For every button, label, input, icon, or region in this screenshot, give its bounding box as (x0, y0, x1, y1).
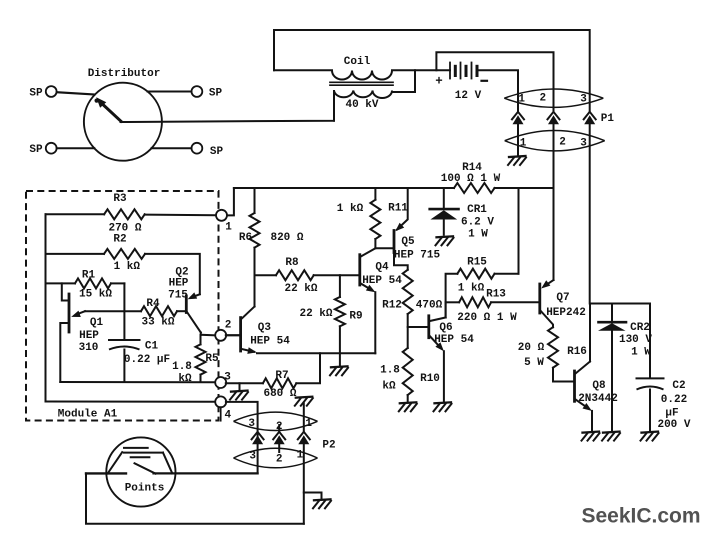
svg-text:Q4: Q4 (375, 262, 389, 274)
svg-text:Q8: Q8 (592, 380, 606, 392)
svg-text:Q3: Q3 (258, 322, 272, 334)
ground stub node 3 wire (239, 383, 241, 390)
wire P1 pin 2 column (553, 124, 555, 188)
points right slant (163, 453, 172, 474)
wire C1 bottom lead (123, 350, 125, 383)
svg-text:1 kΩ: 1 kΩ (337, 203, 364, 215)
wire P1 pin 1 to ground (517, 124, 519, 155)
wire R15 riser to Q6 collector (445, 302, 447, 317)
wire R8 left (255, 274, 277, 276)
svg-text:1 kΩ: 1 kΩ (114, 261, 141, 273)
svg-text:R2: R2 (113, 234, 126, 246)
ground at bottom right stub (313, 499, 331, 508)
wire Q7 emitter slant (545, 280, 554, 286)
wire CR2 top lead (611, 304, 613, 323)
wire Q8 emitter slant (576, 400, 589, 409)
wire SP top-left to rotor (57, 92, 95, 94)
svg-text:22 kΩ: 22 kΩ (299, 308, 332, 320)
transistor Q7 arrow (541, 280, 550, 288)
coil T1 secondary winding 40 kV (334, 91, 392, 112)
wire R15 right (495, 273, 519, 275)
terminal SP top-right (192, 86, 223, 99)
svg-text:R7: R7 (275, 370, 288, 382)
node 4 lower stub (220, 407, 222, 421)
svg-text:680 Ω: 680 Ω (263, 388, 296, 400)
wire R4 right to Q2 base (177, 310, 186, 312)
coil T1 primary winding (332, 56, 392, 80)
wire Q6 emitter lead (443, 351, 445, 401)
svg-text:R8: R8 (285, 257, 299, 269)
svg-text:3: 3 (580, 138, 587, 150)
wire R16 to Q8 base (553, 368, 573, 382)
svg-text:HEP: HEP (79, 330, 99, 342)
svg-text:µF: µF (665, 408, 678, 420)
points left slant (108, 452, 123, 473)
svg-text:33 kΩ: 33 kΩ (141, 317, 174, 329)
wire emitter rail Q3-Q4 (257, 352, 375, 354)
svg-text:130 V: 130 V (619, 334, 652, 346)
svg-text:1: 1 (520, 138, 527, 150)
resistor R6 (239, 213, 304, 248)
coil T1 core (330, 82, 393, 85)
svg-text:C2: C2 (672, 380, 685, 392)
wire R6 bottom lead (254, 248, 256, 307)
wire R7 right riser (296, 353, 320, 383)
distributor (84, 68, 162, 161)
wire C2 top lead (649, 304, 651, 379)
battery 12 V (435, 63, 487, 103)
wire Q5 collector to R12 (394, 253, 408, 270)
svg-text:2: 2 (276, 454, 283, 466)
svg-text:3: 3 (224, 372, 231, 384)
transistor Q1 (69, 294, 103, 354)
node 3 (215, 372, 231, 389)
svg-text:R16: R16 (567, 346, 587, 358)
ground below C2 (641, 432, 659, 441)
points circle (106, 437, 175, 506)
svg-text:HEP 715: HEP 715 (394, 250, 441, 262)
module A1 dashed box (26, 191, 219, 421)
svg-text:100 Ω 1 W: 100 Ω 1 W (441, 173, 501, 185)
svg-text:12 V: 12 V (455, 90, 482, 102)
wire R5 bottom lead (200, 375, 202, 382)
svg-text:Points: Points (125, 483, 165, 495)
wire Q5 base junction (375, 247, 393, 249)
transistor Q8 arrow (583, 403, 592, 411)
connector P1 pin 2 arrow (548, 112, 560, 125)
resistor R3 (104, 193, 145, 235)
wire Q2 emitter slant (191, 294, 200, 297)
svg-text:R12: R12 (382, 300, 402, 312)
svg-text:1 W: 1 W (468, 229, 488, 241)
ground below Q6 (434, 402, 452, 411)
wire R8 right to Q4 base (314, 274, 359, 276)
svg-text:1: 1 (225, 222, 232, 234)
svg-text:3: 3 (248, 418, 255, 430)
wire Q4 emitter lead (374, 292, 376, 353)
node 1 (216, 210, 232, 234)
connector P2 upper pin labels (248, 418, 312, 433)
wire R1 left (46, 282, 76, 284)
wire Q5 emitter from supply (397, 188, 408, 230)
terminal SP top-left (29, 86, 56, 99)
svg-text:4: 4 (224, 410, 231, 422)
wire R14 line to CR1 (443, 188, 445, 209)
wire node 3 to R7 (226, 382, 263, 384)
svg-text:R3: R3 (113, 193, 127, 205)
wire module bottom rail to node 3 (60, 381, 216, 383)
ground below P1 pin 1 (508, 156, 526, 165)
svg-text:1: 1 (297, 450, 304, 462)
connector P1 lower ellipse (505, 131, 605, 151)
wire R15 left riser (446, 274, 458, 318)
connector P1 pin 1 arrow (512, 112, 524, 125)
transistor Q2 (168, 266, 189, 312)
resistor R12 (382, 270, 443, 314)
svg-text:6.2 V: 6.2 V (461, 217, 494, 229)
wire R13 left (446, 301, 460, 303)
ground below CR1 (436, 236, 454, 245)
wire Q1 base slant (77, 311, 85, 314)
svg-text:220 Ω 1 W: 220 Ω 1 W (457, 312, 517, 324)
wire R12 to R10 (407, 314, 409, 348)
svg-text:HEP 54: HEP 54 (250, 336, 290, 348)
node 1 riser (226, 188, 234, 215)
svg-text:1 W: 1 W (631, 347, 651, 359)
wire P1 pin2 column to Q7 emitter (553, 188, 555, 280)
wire distributor rotor to coil secondary (121, 91, 335, 122)
svg-text:+: + (435, 75, 443, 89)
svg-text:SP: SP (209, 88, 223, 100)
svg-text:R4: R4 (146, 298, 160, 310)
svg-text:3: 3 (249, 451, 256, 463)
svg-text:2: 2 (559, 137, 566, 149)
connector P1 pin 3 arrow (584, 112, 596, 125)
svg-text:P1: P1 (601, 113, 615, 125)
wire Q2 collector slant (187, 312, 201, 333)
svg-text:2: 2 (539, 93, 546, 105)
wire battery plus to P1 pin 2 (436, 52, 553, 112)
svg-text:40 kV: 40 kV (345, 99, 378, 111)
terminal SP bottom-right (192, 143, 224, 158)
wire Q6 base (408, 326, 428, 328)
transistor Q4 (360, 249, 402, 293)
svg-text:0.22: 0.22 (661, 394, 687, 406)
zener diode CR1 (430, 204, 495, 241)
wire P1 pin3 column lower (589, 304, 591, 362)
resistor R15 (457, 257, 494, 295)
connector P2 lower ellipse (234, 448, 318, 468)
transistor Q3 (226, 318, 290, 354)
wire P1 pin 3 column (589, 124, 591, 303)
svg-text:200 V: 200 V (657, 419, 690, 431)
terminal SP bottom-left (29, 143, 56, 156)
wire SP top-right to distributor (148, 91, 192, 93)
svg-text:1: 1 (305, 418, 312, 430)
connector P2 pin 2 arrow (273, 432, 285, 445)
wire SP bottom-right to distributor (152, 147, 192, 149)
svg-text:HEP 54: HEP 54 (362, 275, 402, 287)
svg-text:Q1: Q1 (90, 317, 104, 329)
wire R1 right to C1 riser (111, 282, 124, 284)
resistor R9 (299, 297, 362, 326)
wire CR2 C2 rail (590, 303, 650, 305)
wire bottom loop (86, 473, 304, 523)
node 2 (215, 320, 231, 341)
resistor R8 (276, 257, 318, 295)
wire node 4 line (46, 401, 217, 403)
wire R6 top lead (254, 188, 256, 213)
svg-text:R10: R10 (420, 373, 440, 385)
wire P2 pin 1 column (303, 445, 305, 524)
wire Q8 collector slant (576, 362, 591, 374)
connector P1 upper ellipse (504, 89, 603, 107)
svg-text:HEP 54: HEP 54 (434, 334, 474, 346)
resistor R2 (104, 234, 145, 273)
resistor R7 (263, 370, 297, 400)
connector P1 upper pin labels (518, 93, 587, 106)
connector P2 lower pin labels (249, 450, 303, 466)
transistor Q8 (575, 371, 618, 405)
wire secondary right lead hook (392, 70, 415, 92)
ground below CR2 (602, 432, 620, 441)
SeekIC.com logo (581, 505, 700, 528)
resistor R13 (457, 289, 517, 325)
wire R11 bottom lead (374, 239, 376, 248)
wire R9 top lead (339, 275, 341, 297)
transistor Q2 arrow (188, 292, 198, 299)
connector P1 label (601, 113, 615, 125)
resistor R1 (75, 270, 112, 301)
svg-text:SP: SP (29, 144, 43, 156)
wire points left (86, 472, 126, 474)
svg-text:470Ω: 470Ω (416, 300, 443, 312)
node 4 (215, 396, 231, 421)
wire R5 top lead (200, 335, 202, 345)
wire coil primary to battery (392, 69, 450, 71)
wire supply line left (234, 187, 454, 189)
ground below R9 (330, 366, 348, 375)
svg-text:0.22 µF: 0.22 µF (124, 354, 170, 366)
svg-text:HEP242: HEP242 (546, 307, 586, 319)
connector P2 upper ellipse (234, 412, 318, 430)
wire Q8 emitter lead (591, 411, 593, 431)
resistor R16 (518, 327, 587, 369)
wire supply line right (495, 187, 554, 189)
svg-text:Coil: Coil (344, 56, 371, 68)
svg-text:R15: R15 (467, 257, 487, 269)
connector P2 pin 1 arrow (298, 432, 310, 445)
svg-text:C1: C1 (145, 341, 159, 353)
wire C1 riser (123, 283, 125, 340)
zener diode CR2 (598, 322, 652, 431)
svg-text:R6: R6 (239, 232, 252, 244)
connector P1 lower pin labels (520, 137, 588, 150)
svg-text:kΩ: kΩ (178, 373, 192, 385)
wire Q1 emitter (60, 323, 68, 382)
wire R2 to Q2 emitter (145, 254, 200, 294)
wire R3 left (46, 213, 105, 215)
wire R9 bottom lead (339, 326, 341, 365)
wire Q1 collector bracket (62, 283, 68, 300)
svg-text:R1: R1 (82, 270, 96, 282)
points switch arm (135, 463, 156, 473)
svg-text:CR1: CR1 (467, 204, 487, 216)
transistor Q1 arrow (71, 311, 81, 317)
svg-text:1.8: 1.8 (380, 365, 400, 377)
wire points right to P2 pin 3 (154, 472, 258, 474)
wire P2 pin 1 ground stub (304, 493, 322, 499)
connector P2 pin 2 stubs (278, 425, 280, 452)
svg-text:20 Ω: 20 Ω (518, 342, 545, 354)
svg-text:15 kΩ: 15 kΩ (79, 289, 112, 301)
svg-text:Module A1: Module A1 (58, 408, 118, 420)
svg-text:5 W: 5 W (524, 357, 544, 369)
transistor Q7 (540, 284, 586, 319)
svg-text:SeekIC.com: SeekIC.com (581, 505, 700, 528)
resistor R10 (380, 348, 440, 395)
ground below Q8 (582, 432, 600, 441)
resistor R14 (441, 162, 501, 193)
wire Q1 base line (85, 310, 141, 312)
svg-text:310: 310 (79, 342, 99, 354)
wire R14 line to R15 (518, 188, 520, 274)
wire R3 to node 1 (145, 214, 216, 217)
svg-text:kΩ: kΩ (382, 381, 396, 393)
capacitor C2 (637, 378, 691, 431)
svg-text:1 kΩ: 1 kΩ (458, 283, 485, 295)
transistor Q5 (394, 231, 441, 262)
rotor arm with arrow (95, 97, 122, 121)
wire Q7 collector to R16 (541, 311, 553, 327)
resistor R11 (337, 200, 408, 239)
wire node 4 to P2 pin 3 (226, 402, 258, 474)
svg-text:R5: R5 (205, 353, 219, 365)
wire R13 right to Q7 base (491, 301, 538, 303)
svg-text:P2: P2 (322, 440, 335, 452)
wire module left rail (45, 214, 47, 401)
wire R2 left (46, 253, 105, 255)
wire Q2 collector to node 2 (201, 333, 216, 336)
svg-text:22 kΩ: 22 kΩ (284, 283, 317, 295)
capacitor C1 (109, 340, 170, 366)
ground below R10 (399, 402, 417, 411)
svg-text:715: 715 (168, 290, 188, 302)
points label (125, 483, 165, 495)
transistor Q5 arrow (395, 223, 404, 232)
wire node 2 to Q3 base (226, 334, 240, 336)
svg-text:R9: R9 (349, 311, 362, 323)
svg-text:SP: SP (29, 88, 43, 100)
svg-text:R13: R13 (486, 289, 506, 301)
svg-text:1.8: 1.8 (172, 361, 192, 373)
wire top rail (274, 30, 590, 112)
svg-text:CR2: CR2 (630, 322, 650, 334)
wire battery minus to P1 pin 1 (479, 70, 518, 112)
wire R11 top lead (374, 188, 376, 200)
transistor Q6 (429, 316, 474, 351)
wire R10 bottom lead (407, 395, 409, 402)
wire SP bottom-left to distributor (57, 147, 95, 149)
points contact bars (124, 448, 163, 457)
svg-text:R11: R11 (388, 203, 408, 215)
svg-text:2: 2 (225, 320, 232, 332)
svg-text:Q5: Q5 (401, 236, 415, 248)
connector P2 label (322, 440, 335, 452)
ground on node 3 wire (230, 391, 248, 400)
wire secondary left lead (333, 93, 335, 121)
connector P2 pin 3 arrow (252, 432, 264, 445)
svg-text:Q6: Q6 (439, 322, 452, 334)
wire top rail to coil primary (274, 69, 332, 71)
svg-text:Distributor: Distributor (88, 68, 161, 80)
resistor R4 (141, 298, 177, 329)
resistor R5 (172, 344, 219, 385)
svg-text:Q7: Q7 (556, 292, 569, 304)
ground above P2 pin 1 (295, 397, 313, 406)
svg-text:820 Ω: 820 Ω (270, 232, 303, 244)
svg-text:1: 1 (518, 94, 525, 106)
wire Q3 collector slant (242, 307, 255, 319)
svg-text:HEP: HEP (169, 277, 189, 289)
svg-text:3: 3 (580, 94, 587, 106)
wire P2 pin 1 upper stub (303, 404, 305, 432)
svg-text:SP: SP (210, 146, 224, 158)
